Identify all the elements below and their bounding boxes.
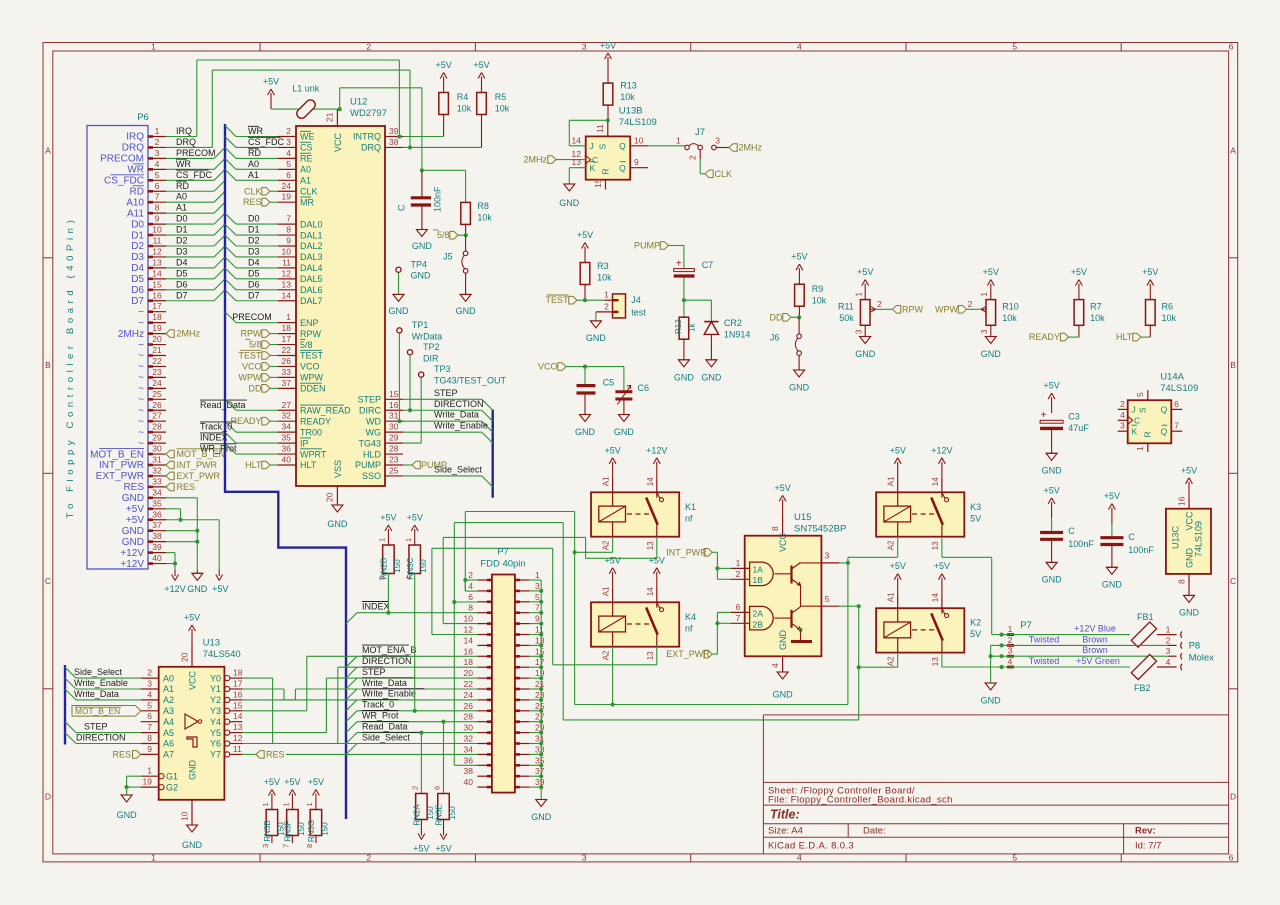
- svg-text:+12V: +12V: [120, 548, 144, 559]
- hier label TEST: [583, 298, 587, 302]
- wire bus to P7.30 Read_Data: [346, 733, 357, 744]
- wire node to R8: [422, 169, 466, 171]
- svg-text:38: 38: [464, 766, 474, 776]
- wire P6.14 to bus: [166, 278, 214, 280]
- ground below C5: [580, 414, 591, 416]
- U14A pin 7 Qbar: [1171, 430, 1182, 432]
- svg-text:37: 37: [152, 520, 162, 530]
- svg-text:+5V: +5V: [407, 513, 423, 523]
- svg-text:14: 14: [464, 635, 474, 645]
- ground below C6: [618, 414, 629, 416]
- svg-text:9: 9: [634, 157, 639, 167]
- U15 pin 7: [731, 622, 750, 624]
- svg-text:Brown: Brown: [1082, 634, 1108, 644]
- svg-text:4: 4: [1008, 657, 1013, 667]
- relay K2 body: [876, 608, 964, 652]
- power +5V above K4 pin14: [656, 572, 658, 588]
- svg-text:TP3: TP3: [434, 364, 451, 374]
- svg-text:2MHz: 2MHz: [177, 329, 201, 339]
- svg-text:VSS: VSS: [333, 460, 343, 478]
- svg-text:DAL1: DAL1: [300, 230, 323, 240]
- svg-text:Y6: Y6: [210, 739, 221, 749]
- svg-text:35: 35: [152, 498, 162, 508]
- wire EXT_PWR to U15 pins 6 7: [716, 612, 718, 654]
- svg-text:A4: A4: [163, 717, 174, 727]
- P6 pin 38: [148, 541, 166, 543]
- wire bus to U12 INDEX: [225, 432, 236, 443]
- relay K4 body: [591, 602, 679, 646]
- svg-text:+5V: +5V: [774, 483, 790, 493]
- svg-text:Q: Q: [1161, 427, 1168, 437]
- P7 pin 1: [515, 579, 530, 581]
- svg-text:TG43/TEST_OUT: TG43/TEST_OUT: [434, 376, 507, 386]
- svg-text:21: 21: [325, 112, 335, 122]
- svg-text:FB2: FB2: [1134, 683, 1151, 693]
- P6 pin 1: [148, 136, 166, 138]
- P7 pin 40: [477, 786, 492, 788]
- svg-text:14: 14: [931, 593, 940, 602]
- svg-text:HLT: HLT: [1116, 332, 1133, 342]
- svg-text:GND: GND: [1042, 575, 1063, 585]
- wire P6.2 DRQ to rail: [166, 146, 212, 148]
- svg-text:R5: R5: [495, 92, 507, 102]
- svg-text:+5V: +5V: [184, 613, 200, 623]
- svg-text:13: 13: [931, 657, 940, 666]
- P6 pin 20: [148, 344, 166, 346]
- wire bus to U13 STEP: [65, 722, 76, 733]
- svg-text:R9: R9: [812, 284, 824, 294]
- svg-text:C: C: [45, 576, 51, 586]
- svg-text:P7: P7: [497, 547, 509, 558]
- svg-text:26: 26: [464, 701, 474, 711]
- P7 pin 39: [515, 786, 530, 788]
- P7 pin 34: [477, 753, 492, 755]
- U13C pin 16 VCC: [1188, 498, 1190, 509]
- ground below R10: [985, 336, 996, 338]
- svg-text:15: 15: [233, 700, 243, 710]
- P7 pin 26: [477, 710, 492, 712]
- svg-text:GND: GND: [411, 271, 432, 281]
- svg-text:D2: D2: [176, 236, 188, 246]
- U13 pin Y3: [225, 708, 230, 713]
- svg-text:A1: A1: [176, 203, 187, 213]
- P6 pin 16: [148, 300, 166, 302]
- U12 pin 25 SSO: [385, 475, 403, 477]
- svg-text:2: 2: [366, 42, 371, 52]
- P7 pin 25: [515, 710, 530, 712]
- wire P7-4 pin2 Brown twisted: [1000, 643, 1004, 647]
- svg-text:2: 2: [1008, 635, 1013, 645]
- svg-text:24: 24: [282, 181, 292, 191]
- svg-text:DAL4: DAL4: [300, 263, 323, 273]
- P7 pin 24: [477, 699, 492, 701]
- wire U15 pin3 to K3.A2 and K4.A2: [839, 562, 848, 564]
- wire bus to U12 DAL7: [225, 290, 236, 301]
- svg-text:nf: nf: [685, 623, 693, 633]
- svg-text:D1: D1: [248, 225, 260, 235]
- svg-text:~: ~: [138, 362, 144, 373]
- svg-text:31: 31: [389, 411, 399, 421]
- svg-text:10k: 10k: [477, 213, 492, 223]
- svg-text:8: 8: [286, 225, 291, 235]
- svg-text:100nF: 100nF: [1068, 539, 1094, 549]
- P6 pin 35: [148, 508, 166, 510]
- wire J7 pin2 to CLK label: [699, 150, 701, 159]
- svg-text:13: 13: [646, 541, 655, 550]
- relay K3 pin A2: [897, 522, 899, 537]
- svg-text:IP: IP: [300, 438, 309, 448]
- P6 pin 33: [148, 486, 166, 488]
- svg-text:7: 7: [535, 603, 540, 613]
- svg-text:5V: 5V: [970, 629, 981, 639]
- wire U12 TG43 to TP3: [403, 442, 421, 444]
- U15 pin 1: [731, 567, 750, 569]
- wire bus to U12 DAL5: [225, 268, 236, 279]
- svg-text:25: 25: [152, 389, 162, 399]
- U13 pin A4: [141, 721, 159, 723]
- svg-text:28: 28: [389, 444, 399, 454]
- svg-text:C5: C5: [603, 378, 615, 388]
- svg-text:Write_Data: Write_Data: [74, 689, 119, 699]
- P6 pin 15: [148, 289, 166, 291]
- svg-text:47uF: 47uF: [1068, 423, 1089, 433]
- wire bus to P7.20 STEP: [346, 678, 357, 689]
- wire bus to U12 DAL3: [225, 246, 236, 257]
- hier label PUMP at U12: [403, 464, 412, 466]
- P7 pin 36: [477, 764, 492, 766]
- U12 pin 39 INTRQ: [385, 136, 403, 138]
- svg-text:FB1: FB1: [1137, 612, 1154, 622]
- svg-text:5: 5: [1012, 853, 1017, 863]
- svg-text:29: 29: [152, 433, 162, 443]
- svg-text:R: R: [1143, 431, 1153, 437]
- svg-text:A0: A0: [300, 165, 311, 175]
- P7 pin 17: [515, 666, 530, 668]
- wire P6.9 to bus: [166, 223, 214, 225]
- svg-text:~: ~: [138, 351, 144, 362]
- svg-text:A1: A1: [602, 586, 611, 596]
- U12 pin 2 WE: [278, 136, 296, 138]
- svg-text:FDD 40pin: FDD 40pin: [480, 559, 525, 570]
- svg-text:4: 4: [797, 42, 802, 52]
- hier label RES at Y7: [256, 751, 264, 759]
- svg-text:CS_FDC: CS_FDC: [176, 170, 213, 180]
- svg-text:GND: GND: [188, 760, 198, 781]
- ground below CR2: [706, 359, 717, 361]
- svg-text:26: 26: [152, 400, 162, 410]
- hier label EXT_PWR at P6.32: [166, 472, 174, 480]
- power +5V above K1 A1: [612, 462, 614, 478]
- svg-text:1: 1: [305, 802, 314, 806]
- svg-text:2: 2: [468, 570, 473, 580]
- svg-text:TR00: TR00: [300, 427, 322, 437]
- wire P7-4 rows 2 3 to ground: [990, 645, 992, 683]
- P7 pin 19: [515, 677, 530, 679]
- svg-text:VCC: VCC: [333, 132, 343, 152]
- svg-text:Track_0: Track_0: [200, 422, 232, 432]
- svg-text:13: 13: [233, 722, 243, 732]
- svg-text:5: 5: [825, 594, 830, 604]
- svg-text:GND: GND: [531, 812, 552, 822]
- svg-text:+5V: +5V: [890, 445, 906, 455]
- svg-text:39: 39: [152, 542, 162, 552]
- svg-text:GND: GND: [187, 584, 208, 594]
- U15 pin 2: [731, 578, 750, 580]
- wire bus to P7.32 Side_Select: [346, 744, 357, 755]
- svg-text:+5V Green: +5V Green: [1076, 656, 1120, 666]
- svg-text:GND: GND: [389, 306, 410, 316]
- svg-text:+5V: +5V: [1071, 267, 1087, 277]
- hier label RES at U13 A7: [133, 751, 141, 759]
- resistor network RN3G with +5V: [315, 794, 317, 810]
- U15 transistor 2: [775, 617, 792, 619]
- svg-text:R7: R7: [1090, 302, 1102, 312]
- global label MOT_B_EN at U13: [72, 706, 141, 717]
- P7 pin 2: [477, 579, 492, 581]
- P6 pin 31: [148, 464, 166, 466]
- wire P6.8 to bus: [166, 212, 214, 214]
- svg-text:+5V: +5V: [600, 41, 616, 51]
- svg-text:R6: R6: [1162, 302, 1174, 312]
- P6 pin 27: [148, 420, 166, 422]
- svg-text:30: 30: [464, 723, 474, 733]
- svg-text:1: 1: [980, 292, 989, 297]
- svg-text:3: 3: [1166, 646, 1171, 656]
- relay K1 pin A1: [612, 478, 614, 506]
- svg-text:D5: D5: [248, 268, 260, 278]
- svg-text:C: C: [1068, 526, 1075, 536]
- svg-text:13: 13: [931, 541, 940, 550]
- svg-text:PUMP: PUMP: [355, 460, 381, 470]
- svg-text:2A: 2A: [753, 609, 764, 619]
- svg-text:DIRECTION: DIRECTION: [76, 733, 126, 743]
- svg-text:TG43: TG43: [358, 438, 381, 448]
- wire P7.2 P7.4 tie: [465, 579, 477, 581]
- svg-text:2: 2: [604, 301, 609, 311]
- svg-text:+5V: +5V: [435, 844, 451, 854]
- wire P6.15 to bus: [166, 289, 214, 291]
- svg-text:WR_Prot: WR_Prot: [200, 444, 237, 454]
- svg-text:4: 4: [797, 853, 802, 863]
- svg-text:22: 22: [152, 356, 162, 366]
- svg-text:READY: READY: [1029, 332, 1060, 342]
- svg-text:VCC: VCC: [778, 532, 788, 552]
- P7 pin 3: [515, 590, 530, 592]
- wire +5V to L1 to U12 VCC: [271, 108, 340, 110]
- svg-text:32: 32: [152, 465, 162, 475]
- svg-text:6: 6: [1174, 399, 1179, 409]
- svg-text:MR: MR: [300, 197, 314, 207]
- svg-text:1: 1: [151, 42, 156, 52]
- svg-text:HLD: HLD: [363, 449, 382, 459]
- svg-text:ENP: ENP: [300, 318, 319, 328]
- svg-text:21: 21: [152, 345, 162, 355]
- IC U12 WD2797 body: [296, 126, 385, 486]
- svg-text:150: 150: [297, 822, 306, 836]
- svg-text:Write_Enable: Write_Enable: [74, 678, 128, 688]
- U15 emitter 2 to ground bar: [798, 628, 802, 632]
- svg-text:4: 4: [1166, 657, 1171, 667]
- svg-text:WPW: WPW: [300, 373, 323, 383]
- P6 pin 40: [148, 563, 166, 565]
- svg-text:R3: R3: [597, 261, 609, 271]
- relay K1 pin A2: [612, 522, 614, 537]
- svg-text:19: 19: [282, 192, 292, 202]
- U13B pin 12 C clock: [556, 159, 586, 161]
- svg-text:+5V: +5V: [1043, 381, 1059, 391]
- svg-text:DAL0: DAL0: [300, 219, 323, 229]
- svg-text:Y3: Y3: [210, 706, 221, 716]
- capacitor C 100nF at U12: [421, 170, 423, 196]
- svg-text:+5V: +5V: [473, 60, 489, 70]
- svg-text:STEP: STEP: [434, 388, 458, 398]
- svg-text:~: ~: [138, 307, 144, 318]
- svg-text:READY: READY: [300, 416, 331, 426]
- power +12V above K3 pin14: [941, 462, 943, 478]
- svg-text:MOT_ENA_B: MOT_ENA_B: [362, 645, 417, 655]
- svg-text:K1: K1: [685, 502, 696, 512]
- P6 pin 9: [148, 223, 166, 225]
- svg-text:6: 6: [468, 592, 473, 602]
- relay K2 pin A1: [897, 594, 899, 622]
- svg-text:1: 1: [155, 126, 160, 136]
- svg-text:R: R: [601, 168, 611, 174]
- resistor network RN3B with +5V: [271, 794, 273, 810]
- svg-text:C6: C6: [638, 383, 650, 393]
- wire bus to P7.22 Write_Data: [346, 689, 357, 700]
- IC U13C 74LS109 power unit: [1188, 482, 1190, 498]
- svg-text:9: 9: [155, 214, 160, 224]
- svg-text:1: 1: [604, 290, 609, 300]
- ground below R12: [678, 359, 689, 361]
- potentiometer R11 50k with +5V: [864, 284, 866, 300]
- svg-text:R8: R8: [477, 201, 489, 211]
- wire U13B Q to J7: [648, 145, 685, 147]
- U12 pin 13 DAL6: [278, 289, 296, 291]
- svg-text:INDEX: INDEX: [200, 433, 228, 443]
- svg-text:R4: R4: [457, 92, 469, 102]
- svg-text:8: 8: [468, 603, 473, 613]
- P7 pin 30: [477, 732, 492, 734]
- svg-text:10: 10: [634, 135, 644, 145]
- svg-text:26: 26: [282, 356, 292, 366]
- hier label DD at U12: [270, 387, 278, 389]
- svg-text:~: ~: [138, 373, 144, 384]
- svg-text:+12V Blue: +12V Blue: [1074, 624, 1116, 634]
- U13 pin G2: [159, 785, 164, 790]
- svg-text:1: 1: [1135, 446, 1145, 451]
- svg-text:11: 11: [282, 257, 291, 267]
- wire U12 DIRECTION to bus: [403, 409, 482, 411]
- svg-text:GND: GND: [674, 373, 695, 383]
- ground below J5: [460, 293, 471, 295]
- svg-text:24: 24: [152, 378, 162, 388]
- wire bus to P7.24 Write_Enable: [346, 700, 357, 711]
- power +5V above K2 A1: [897, 578, 899, 594]
- svg-text:11: 11: [153, 236, 162, 246]
- svg-text:U12: U12: [350, 97, 367, 108]
- svg-text:32: 32: [464, 734, 474, 744]
- svg-text:RN3E: RN3E: [435, 804, 444, 825]
- svg-text:A1: A1: [887, 592, 896, 602]
- svg-text:2: 2: [286, 126, 291, 136]
- svg-text:24: 24: [464, 690, 474, 700]
- svg-text:12: 12: [282, 268, 292, 278]
- svg-text:R13: R13: [620, 81, 637, 91]
- svg-text:GND: GND: [412, 241, 433, 251]
- svg-text:+5V: +5V: [435, 60, 451, 70]
- svg-text:Y4: Y4: [210, 717, 221, 727]
- svg-text:8: 8: [147, 733, 152, 743]
- svg-text:EXT_PWR: EXT_PWR: [96, 471, 144, 482]
- wire G1 G2 to ground: [127, 775, 141, 777]
- U12 pin 30 WG: [385, 431, 403, 433]
- svg-text:Side_Select: Side_Select: [362, 732, 411, 742]
- resistor R12 1k: [683, 300, 685, 317]
- svg-text:15: 15: [389, 389, 399, 399]
- svg-text:+: +: [1041, 410, 1047, 421]
- U14A pin 3 K: [1118, 430, 1128, 432]
- wire U13 Y1 to Write_Enable row: [242, 688, 284, 690]
- wire P7.12 row: [432, 634, 478, 636]
- svg-text:Q: Q: [619, 163, 626, 173]
- svg-text:GND: GND: [122, 526, 144, 537]
- U12 pin 21 VCC: [336, 109, 338, 126]
- svg-text:EXT_PWR: EXT_PWR: [177, 471, 221, 481]
- svg-text:A1: A1: [163, 684, 174, 694]
- svg-text:+5V: +5V: [604, 445, 620, 455]
- svg-text:6: 6: [1229, 42, 1234, 52]
- P7 pin 10: [477, 623, 492, 625]
- svg-text:A1: A1: [887, 476, 896, 486]
- svg-text:2MHz: 2MHz: [523, 155, 547, 165]
- svg-text:3: 3: [147, 679, 152, 689]
- svg-text:+5V: +5V: [983, 267, 999, 277]
- svg-text:A2: A2: [887, 540, 896, 550]
- U13 pin Y5: [225, 730, 230, 735]
- svg-text:CS: CS: [300, 143, 313, 153]
- svg-text:35: 35: [282, 433, 292, 443]
- wire P7.10 row: [443, 623, 477, 625]
- svg-text:D3: D3: [131, 252, 144, 263]
- svg-text:DRQ: DRQ: [176, 137, 196, 147]
- U12 pin 18 RPW: [278, 333, 296, 335]
- svg-text:RN2A: RN2A: [413, 804, 422, 826]
- svg-text:1: 1: [676, 135, 681, 145]
- svg-text:34: 34: [282, 422, 292, 432]
- power +5V above K3 A1: [897, 462, 899, 478]
- svg-text:Size: A4: Size: A4: [768, 826, 803, 837]
- resistor R7 with +5V and READY label: [1078, 284, 1080, 300]
- power +5V at L1: [270, 93, 272, 109]
- U15 pin 4 GND: [782, 656, 784, 672]
- P6 pin 7: [148, 201, 166, 203]
- svg-text:DDEN: DDEN: [300, 384, 326, 394]
- hier label DD at R9: [797, 315, 801, 319]
- svg-text:4: 4: [468, 581, 473, 591]
- svg-text:nf: nf: [685, 513, 693, 523]
- svg-text:18: 18: [282, 323, 292, 333]
- svg-text:13: 13: [282, 279, 292, 289]
- resistor network RN2A pullup to Read_Data: [420, 733, 422, 794]
- test point TP1: [397, 328, 402, 333]
- svg-text:5: 5: [155, 170, 160, 180]
- svg-text:D: D: [1230, 791, 1236, 801]
- U12 pin 9 DAL2: [278, 245, 296, 247]
- svg-text:GND: GND: [122, 537, 144, 548]
- svg-text:3: 3: [582, 42, 587, 52]
- svg-text:D6: D6: [131, 285, 144, 296]
